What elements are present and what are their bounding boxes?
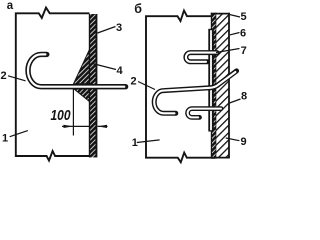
vertical rod (bar) (208, 29, 214, 132)
leader + label 4 (93, 64, 117, 70)
joint strip (hatched, dense) (211, 13, 216, 159)
svg-text:5: 5 (241, 11, 247, 23)
wall (sparse hatch) (216, 13, 229, 158)
svg-text:1: 1 (132, 137, 138, 149)
dim arrowhead left (64, 125, 74, 128)
leader + label 8 (230, 99, 241, 103)
leader + label 6 (230, 33, 240, 35)
svg-text:2: 2 (131, 76, 137, 88)
dimension line 100 (62, 125, 73, 127)
leader + label 2 (8, 76, 26, 81)
svg-text:1: 1 (2, 133, 8, 145)
svg-text:а: а (7, 0, 14, 12)
svg-text:9: 9 (241, 136, 247, 148)
svg-text:2: 2 (1, 70, 7, 82)
svg-text:3: 3 (116, 22, 122, 34)
dim arrowhead right (98, 125, 108, 128)
leader + label 2 (b) (138, 82, 155, 90)
mortar triangle 4 (above bar) (74, 50, 90, 84)
mortar triangle (below bar) (74, 89, 89, 102)
lifting hook 2 (panel a) (28, 54, 126, 86)
leader + label 1 (b) (137, 140, 160, 143)
extension line (72, 84, 74, 136)
svg-text:7: 7 (241, 45, 247, 57)
panel 1 outline with break zigzags (16, 8, 90, 161)
panel 1 outline with break zigzags (146, 11, 211, 163)
leader + label 5 (230, 15, 241, 18)
svg-text:8: 8 (241, 90, 247, 102)
wall strip 3 (hatched) (89, 14, 97, 157)
top wall hook (186, 53, 217, 62)
panel hook 2 with bent anchor end (154, 71, 236, 113)
leader + label 3 (98, 27, 116, 34)
leader + label 9 (226, 138, 240, 141)
leader + label 7 (216, 49, 240, 53)
svg-text:б: б (134, 2, 142, 16)
svg-text:6: 6 (240, 28, 246, 40)
leader + label 1 (10, 131, 28, 137)
svg-text:4: 4 (117, 65, 124, 77)
bottom wall hook (188, 109, 221, 118)
svg-text:100: 100 (51, 108, 71, 124)
